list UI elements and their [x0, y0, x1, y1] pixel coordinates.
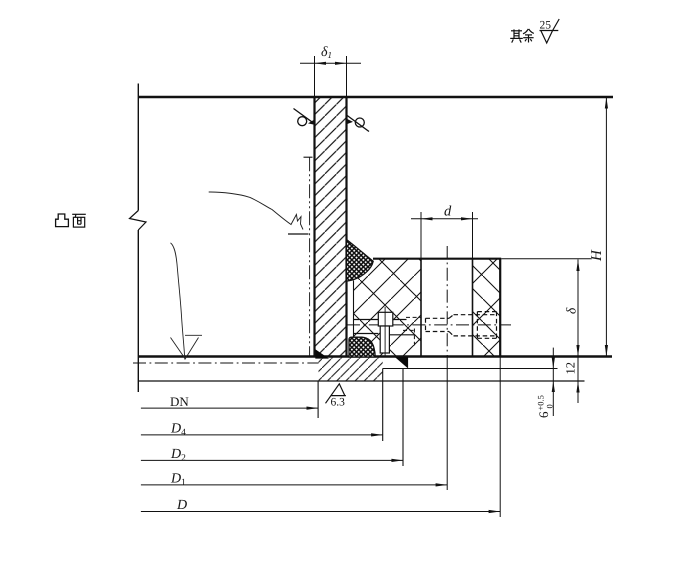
gasket edge / D2 extension — [402, 369, 404, 467]
flange top edge — [373, 258, 501, 260]
svg-text:12: 12 — [564, 362, 578, 375]
dimension line D4 — [141, 434, 383, 436]
D extension line — [499, 357, 501, 518]
flange top extension line — [501, 258, 591, 260]
raised face step edge / D4 extension — [382, 369, 384, 442]
label qi character — [510, 29, 523, 42]
freehand pencil leader lower with arrow — [171, 243, 203, 360]
svg-text:6.3: 6.3 — [331, 397, 346, 409]
label tu (convex) character — [56, 214, 69, 227]
dimension line D1 — [141, 484, 447, 486]
bottom diameter dimensions — [141, 407, 500, 514]
freehand pencil leader upper — [209, 192, 303, 230]
lower weld seam between pipe and flange — [349, 337, 375, 357]
label yu character — [523, 29, 534, 43]
left break line — [137, 84, 139, 393]
bolt hole left edge — [420, 259, 422, 357]
bolt axis centerline horizontal — [347, 324, 511, 326]
svg-text:d: d — [444, 204, 452, 220]
bolt hole diameter dimension d — [411, 217, 478, 220]
bolt shank and head facet lines — [454, 315, 497, 336]
DN extension line — [317, 381, 319, 418]
cover bottom line — [138, 380, 584, 382]
pin slot line lower — [354, 334, 415, 335]
break zigzag — [130, 211, 147, 231]
pipe inner wall edge — [314, 56, 316, 97]
fillet weld inside pipe at face plate — [315, 349, 329, 358]
face centerline dash-dot — [133, 362, 319, 364]
flange bore edge — [353, 281, 355, 338]
pipe wall thickness dimension delta1 — [300, 62, 361, 65]
pin centerline — [384, 307, 386, 357]
svg-text:DN: DN — [170, 394, 189, 409]
pipe outer wall edge — [346, 56, 348, 97]
D1 extension line — [446, 360, 448, 490]
surface roughness note 25 top right — [540, 19, 560, 43]
flange ring section (right of bolt hole) hatch — [473, 259, 501, 357]
phantom line inside pipe — [304, 157, 313, 356]
bolt hole right edge — [472, 259, 474, 357]
cover middle step line — [383, 368, 558, 370]
svg-text:D: D — [176, 498, 187, 513]
d extension line left — [420, 212, 422, 259]
raised face height dimension 6 +0.5/0 — [552, 348, 555, 416]
label mian (face) character — [72, 214, 86, 227]
fillet weld at raised face step — [395, 357, 408, 369]
bolt head outline — [477, 312, 496, 339]
upper weld seam between pipe and flange — [346, 240, 373, 282]
flange total height dimension H — [605, 97, 608, 357]
flange thickness dimension delta and 12 — [576, 259, 579, 403]
hidden slot edges — [406, 316, 421, 318]
surface finish 6.3 symbol under raised face — [326, 384, 346, 404]
svg-text:H: H — [589, 249, 605, 262]
d extension line right — [472, 212, 474, 259]
pipe wall section hatch — [315, 97, 347, 357]
svg-text:25: 25 — [540, 20, 552, 32]
weld symbol left of pipe — [294, 109, 315, 126]
flange outer edge — [499, 259, 501, 357]
shoulder chamfer — [449, 315, 454, 336]
dimension line D — [141, 511, 500, 513]
svg-text:0: 0 — [545, 404, 555, 408]
flange ring section (left of bolt hole) hatch — [354, 259, 422, 357]
raised face strip hatch — [319, 358, 383, 381]
pin slot line upper — [354, 319, 407, 321]
svg-text:6: 6 — [536, 411, 551, 418]
dimension line DN — [141, 407, 318, 409]
bolt circle centerline in hole — [446, 246, 448, 360]
weld symbol right of pipe — [347, 115, 370, 132]
dimension line D2 — [141, 459, 403, 461]
threaded end — [426, 318, 450, 331]
top break line of shell — [138, 96, 613, 99]
flange bottom / gasket face line — [138, 355, 612, 358]
svg-text:δ: δ — [564, 307, 579, 314]
short underline mark — [288, 233, 309, 235]
swing bolt pin boss (section) — [354, 307, 421, 357]
hexagon bolt (hidden) in bolt hole — [426, 312, 497, 339]
pin shank below — [380, 326, 389, 353]
